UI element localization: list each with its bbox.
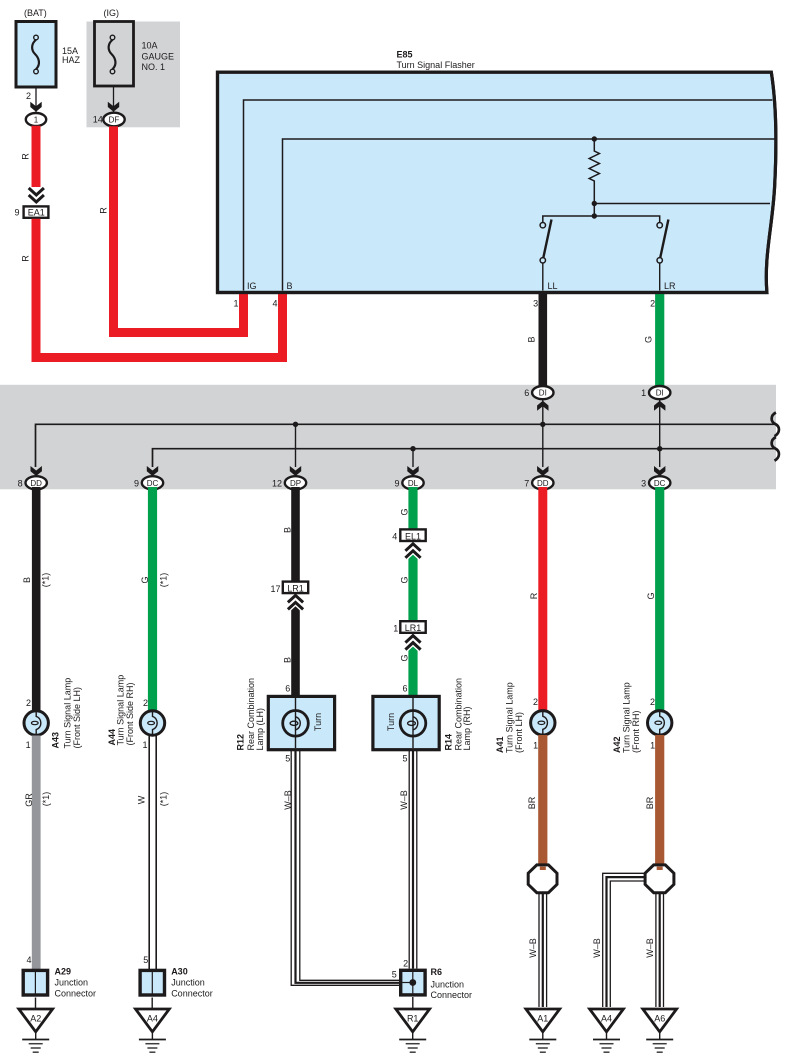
lamp A44 Turn Signal Lamp (Front Side RH) — [107, 675, 165, 750]
svg-text:Junction: Junction — [171, 978, 205, 988]
wire G col4 DL9 to EL1 — [408, 487, 417, 530]
svg-text:A1: A1 — [537, 1014, 548, 1024]
node junction resistor bottom — [592, 201, 597, 206]
relay block grey band — [0, 385, 776, 490]
wire B internal line — [283, 139, 776, 291]
wire G col2 DC9 to A44 — [148, 487, 157, 711]
svg-text:4: 4 — [392, 532, 397, 542]
svg-text:LR1: LR1 — [405, 623, 422, 633]
svg-text:(Front Side LH): (Front Side LH) — [72, 687, 82, 749]
svg-text:8: 8 — [18, 478, 23, 488]
arrow down into DD 7 — [537, 466, 548, 476]
node on bus2 at DC3 — [657, 446, 662, 451]
svg-text:Junction: Junction — [431, 979, 465, 989]
squiggle cut mark bus 1 — [772, 413, 779, 437]
svg-text:1: 1 — [393, 623, 398, 633]
svg-text:6: 6 — [402, 684, 407, 694]
svg-text:DP: DP — [290, 479, 301, 488]
switch LL — [540, 220, 557, 291]
svg-text:Connector: Connector — [431, 990, 473, 1000]
fuse F2 10A GAUGE NO.1 (IG) — [95, 8, 175, 86]
svg-text:(IG): (IG) — [104, 8, 120, 18]
arrow down into DD 8 — [31, 466, 42, 476]
svg-text:B: B — [283, 527, 293, 533]
svg-text:2: 2 — [650, 299, 655, 309]
svg-text:R6: R6 — [431, 967, 443, 977]
svg-text:A30: A30 — [171, 967, 188, 977]
svg-text:Turn Signal Lamp: Turn Signal Lamp — [622, 682, 632, 753]
svg-text:Turn: Turn — [313, 713, 323, 731]
svg-text:Turn Signal Flasher: Turn Signal Flasher — [397, 60, 475, 70]
svg-text:12: 12 — [272, 478, 282, 488]
svg-text:GR: GR — [24, 793, 34, 807]
resistor R internal — [589, 139, 599, 216]
svg-text:BR: BR — [527, 796, 537, 809]
svg-text:A2: A2 — [30, 1014, 41, 1024]
lamp A41 Turn Signal Lamp (Front LH) — [495, 682, 555, 753]
junction connector A30 pin 5 — [140, 955, 213, 999]
wire BR col6 A42 to splice — [655, 735, 664, 866]
svg-text:DF: DF — [109, 115, 120, 124]
svg-text:W–B: W–B — [528, 938, 538, 958]
svg-text:DD: DD — [30, 479, 42, 488]
svg-text:LL: LL — [548, 281, 558, 291]
svg-text:4: 4 — [272, 298, 277, 308]
svg-text:DI: DI — [656, 389, 664, 398]
svg-text:W–B: W–B — [645, 938, 655, 958]
svg-text:G: G — [140, 576, 150, 583]
pin 14 of fuse F2 — [113, 86, 115, 113]
svg-text:4: 4 — [26, 955, 31, 965]
svg-text:2: 2 — [403, 959, 408, 969]
ground A4 right — [590, 1009, 624, 1052]
svg-text:1: 1 — [533, 741, 538, 751]
chevrons into EA1 — [29, 188, 44, 195]
svg-text:(*1): (*1) — [158, 573, 168, 588]
E85 title — [397, 49, 475, 70]
wire W-B branch octagon to A4 — [603, 873, 646, 1007]
svg-text:14: 14 — [93, 115, 103, 125]
svg-text:R: R — [99, 207, 109, 214]
wire B from E85 LL to DI — [538, 292, 547, 387]
svg-text:2: 2 — [26, 698, 31, 708]
pin 2 of fuse F1 — [35, 87, 37, 113]
chevrons below LR1 — [288, 595, 303, 602]
arrow down into DC 9 — [147, 466, 158, 476]
arrow up into DI 1 — [654, 401, 665, 411]
node on bus2 at DL — [410, 446, 415, 451]
wire W col2 A44 to A30 — [149, 736, 156, 970]
svg-text:A42: A42 — [612, 736, 622, 753]
svg-text:1: 1 — [233, 298, 238, 308]
wire BR stub inside splice col5 — [540, 867, 546, 870]
svg-text:A43: A43 — [51, 732, 61, 749]
svg-text:3: 3 — [533, 299, 538, 309]
svg-text:Turn Signal Lamp: Turn Signal Lamp — [115, 675, 125, 746]
switch LR — [657, 220, 676, 291]
svg-text:DC: DC — [654, 479, 666, 488]
svg-text:(*1): (*1) — [159, 792, 169, 807]
E85 box border restroke — [218, 72, 776, 292]
svg-text:B: B — [527, 336, 537, 342]
arrow down into DP 12 — [290, 466, 301, 476]
svg-text:2: 2 — [26, 91, 31, 101]
wire G from E85 LR to DI — [655, 292, 664, 387]
svg-text:G: G — [400, 654, 410, 661]
ground A2 — [19, 998, 53, 1053]
svg-text:IG: IG — [247, 281, 257, 291]
wire W-B col5 to A1 — [539, 893, 547, 1007]
arrow down into DC 3 — [654, 466, 665, 476]
svg-text:DI: DI — [539, 389, 547, 398]
svg-text:Lamp (LH): Lamp (LH) — [255, 708, 265, 751]
squiggle cut mark bus 2 — [772, 437, 779, 461]
connector oval DF — [103, 113, 124, 127]
wire BR stub inside splice col6 — [657, 867, 663, 870]
ground A1 — [526, 1009, 560, 1052]
lamp unit R12 Rear Combination Lamp (LH) — [236, 678, 335, 764]
splice octagon col6 — [645, 865, 674, 893]
wire G col4 EL1 to LR1 — [408, 548, 417, 621]
svg-text:HAZ: HAZ — [62, 55, 81, 65]
svg-text:Connector: Connector — [171, 989, 213, 999]
drop to DP — [295, 424, 297, 467]
node junction on B line — [592, 136, 597, 141]
svg-text:LR: LR — [664, 281, 676, 291]
splice octagon col5 — [528, 865, 557, 893]
svg-text:A4: A4 — [601, 1014, 612, 1024]
svg-text:EL1: EL1 — [405, 531, 421, 541]
wire W-B col3 R12 to R6 — [291, 749, 400, 985]
wire B col1 DD8 to A43 — [32, 487, 41, 711]
svg-text:9: 9 — [394, 478, 399, 488]
wire GR col1 A43 to A29 — [32, 736, 41, 970]
fuse F1 15A HAZ (BAT) — [16, 8, 81, 87]
wire IG internal line — [244, 100, 773, 291]
svg-text:Connector: Connector — [55, 989, 97, 999]
svg-text:R: R — [21, 255, 31, 262]
svg-text:G: G — [644, 336, 654, 343]
svg-text:3: 3 — [641, 478, 646, 488]
svg-text:(Front RH): (Front RH) — [631, 710, 641, 753]
svg-text:(Front LH): (Front LH) — [514, 712, 524, 753]
svg-text:B: B — [283, 657, 293, 663]
ground A4 — [136, 998, 170, 1053]
drop to DL — [412, 449, 414, 467]
svg-text:A4: A4 — [147, 1014, 158, 1024]
svg-text:6: 6 — [524, 388, 529, 398]
svg-text:2: 2 — [650, 697, 655, 707]
arrow into connector 1 — [30, 102, 41, 112]
svg-text:B: B — [287, 281, 293, 291]
svg-text:5: 5 — [285, 754, 290, 764]
svg-text:A41: A41 — [495, 736, 505, 753]
svg-text:A29: A29 — [55, 967, 72, 977]
wire G col6 DC3 to A42 — [655, 487, 664, 711]
svg-text:R: R — [21, 153, 31, 160]
arrow up into DI 6 — [537, 401, 548, 411]
svg-text:5: 5 — [392, 970, 397, 980]
svg-text:EA1: EA1 — [28, 207, 45, 217]
arrow into connector DF — [108, 102, 119, 112]
svg-text:1: 1 — [650, 741, 655, 751]
svg-text:(Front Side RH): (Front Side RH) — [125, 682, 135, 745]
svg-text:DC: DC — [147, 479, 159, 488]
arrow down into DL 9 — [407, 466, 418, 476]
svg-text:W–B: W–B — [399, 790, 409, 810]
wire switch bus — [543, 216, 660, 223]
svg-text:A6: A6 — [654, 1014, 665, 1024]
wire R col5 DD7 to A41 — [538, 487, 547, 711]
chevrons below LR1 col4 — [405, 636, 420, 643]
ground A6 — [643, 1009, 677, 1052]
wire BR col5 A41 to splice — [538, 735, 547, 866]
svg-text:Lamp (RH): Lamp (RH) — [462, 706, 472, 750]
node on bus1 at DP — [293, 422, 298, 427]
bus line 1 in relay block — [36, 424, 776, 467]
svg-text:1: 1 — [142, 740, 147, 750]
svg-text:1: 1 — [641, 388, 646, 398]
svg-text:GAUGE: GAUGE — [142, 51, 175, 61]
svg-text:Turn Signal Lamp: Turn Signal Lamp — [505, 682, 515, 753]
svg-text:Junction: Junction — [55, 978, 89, 988]
svg-text:2: 2 — [143, 698, 148, 708]
svg-text:NO. 1: NO. 1 — [142, 62, 166, 72]
wire R from fuse1 to EA1 — [32, 126, 41, 187]
svg-text:W–B: W–B — [283, 790, 293, 810]
svg-text:G: G — [400, 576, 410, 583]
svg-text:LR1: LR1 — [287, 584, 304, 594]
wire W-B col6 to A6 — [656, 893, 664, 1007]
svg-text:DL: DL — [408, 479, 419, 488]
svg-text:5: 5 — [143, 955, 148, 965]
wire B col3 DP12 to LR1 — [291, 487, 300, 584]
svg-text:R1: R1 — [407, 1014, 419, 1024]
ground R1 — [396, 997, 430, 1052]
svg-text:17: 17 — [270, 584, 280, 594]
lamp unit R14 Rear Combination Lamp (RH) — [373, 678, 472, 764]
svg-text:7: 7 — [524, 478, 529, 488]
svg-text:9: 9 — [14, 208, 19, 218]
wire G col4 LR1 to R14 — [408, 639, 417, 698]
wire W-B col4 R14 to R6 — [409, 749, 417, 969]
svg-text:W: W — [137, 795, 147, 804]
junction connector A29 pin 4 — [23, 955, 96, 999]
link DI6 to DD7 — [542, 400, 544, 468]
wire B col3 LR1 to R12 — [291, 599, 300, 698]
svg-text:G: G — [400, 508, 410, 515]
wire R from EA1 to E85 pin 4 (B) — [36, 219, 283, 358]
svg-text:Turn Signal Lamp: Turn Signal Lamp — [62, 678, 72, 749]
svg-text:R14: R14 — [444, 734, 454, 751]
svg-text:10A: 10A — [142, 41, 158, 51]
lamp A42 Turn Signal Lamp (Front RH) — [612, 682, 672, 753]
lamp A43 Turn Signal Lamp (Front Side LH) — [24, 678, 82, 750]
svg-text:B: B — [22, 577, 32, 583]
svg-text:6: 6 — [285, 684, 290, 694]
bus line 2 in relay block — [153, 449, 776, 467]
svg-text:1: 1 — [26, 740, 31, 750]
svg-text:9: 9 — [134, 478, 139, 488]
chevrons below EL1 — [405, 544, 420, 551]
svg-text:(BAT): (BAT) — [24, 8, 47, 18]
svg-text:2: 2 — [533, 697, 538, 707]
svg-text:R: R — [529, 592, 539, 599]
wire R from DF to E85 pin 1 (IG) — [114, 126, 244, 332]
node on bus1 at DD7 — [540, 422, 545, 427]
junction connector R6 pins 2,5 — [392, 959, 472, 1000]
svg-text:E85: E85 — [397, 49, 413, 59]
svg-text:(*1): (*1) — [41, 573, 51, 588]
node junction switch bus — [592, 213, 597, 218]
connector oval 1 — [26, 113, 46, 126]
wire resistor output line — [594, 203, 770, 205]
svg-text:(*1): (*1) — [41, 792, 51, 807]
link DI1 to DC3 — [659, 400, 661, 468]
svg-text:G: G — [646, 592, 656, 599]
svg-text:R12: R12 — [236, 734, 246, 751]
svg-text:W–B: W–B — [592, 938, 602, 958]
svg-text:Turn: Turn — [386, 713, 396, 731]
IG fuse grey panel — [87, 22, 181, 128]
E85 flasher box body — [218, 72, 776, 292]
svg-text:DD: DD — [537, 479, 549, 488]
svg-text:BR: BR — [645, 796, 655, 809]
svg-text:1: 1 — [34, 116, 39, 125]
svg-text:5: 5 — [402, 754, 407, 764]
